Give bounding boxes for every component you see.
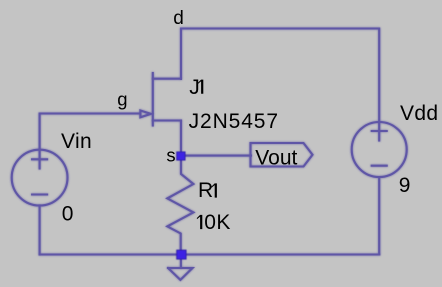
wire: Vin minus down to bottom rail bbox=[39, 205, 41, 254]
wire: JFET source down to node s bbox=[180, 121, 182, 154]
svg-text:d: d bbox=[173, 8, 184, 29]
resistor R1 zigzag body bbox=[167, 158, 193, 250]
svg-text:s: s bbox=[166, 145, 175, 166]
wire: junction down to ground symbol bbox=[180, 255, 182, 268]
port flag Vout outline bbox=[251, 143, 313, 167]
wire: Vdd minus down to bottom rail bbox=[378, 177, 380, 255]
svg-text:J: J bbox=[189, 76, 200, 99]
ground junction square bbox=[177, 250, 186, 259]
voltage source V2 Vdd symbol bbox=[352, 122, 407, 177]
node s junction square bbox=[177, 152, 185, 160]
svg-text:R: R bbox=[198, 179, 213, 202]
svg-text:0: 0 bbox=[62, 203, 74, 226]
voltage source V1 Vin symbol bbox=[12, 150, 68, 206]
refdes label R1 bbox=[198, 179, 217, 202]
svg-text:0K: 0K bbox=[204, 211, 231, 234]
wire: JFET drain up to top rail and down to Vdd plus pin bbox=[181, 29, 379, 123]
svg-text:9: 9 bbox=[399, 174, 411, 197]
wire: Vin plus up and right to JFET gate bbox=[40, 114, 140, 150]
ground symbol bbox=[168, 268, 193, 280]
value label 10K bbox=[197, 211, 231, 234]
svg-text:J2N5457: J2N5457 bbox=[189, 110, 279, 133]
refdes label J1 bbox=[189, 76, 203, 99]
svg-text:Vin: Vin bbox=[61, 130, 92, 153]
transistor J1 JFET symbol body bbox=[140, 73, 181, 126]
svg-text:Vdd: Vdd bbox=[400, 102, 438, 125]
wire: node s right to Vout port bbox=[184, 155, 251, 157]
svg-text:g: g bbox=[117, 89, 127, 110]
svg-text:Vout: Vout bbox=[255, 146, 297, 169]
wire: bottom ground rail bbox=[40, 253, 380, 255]
